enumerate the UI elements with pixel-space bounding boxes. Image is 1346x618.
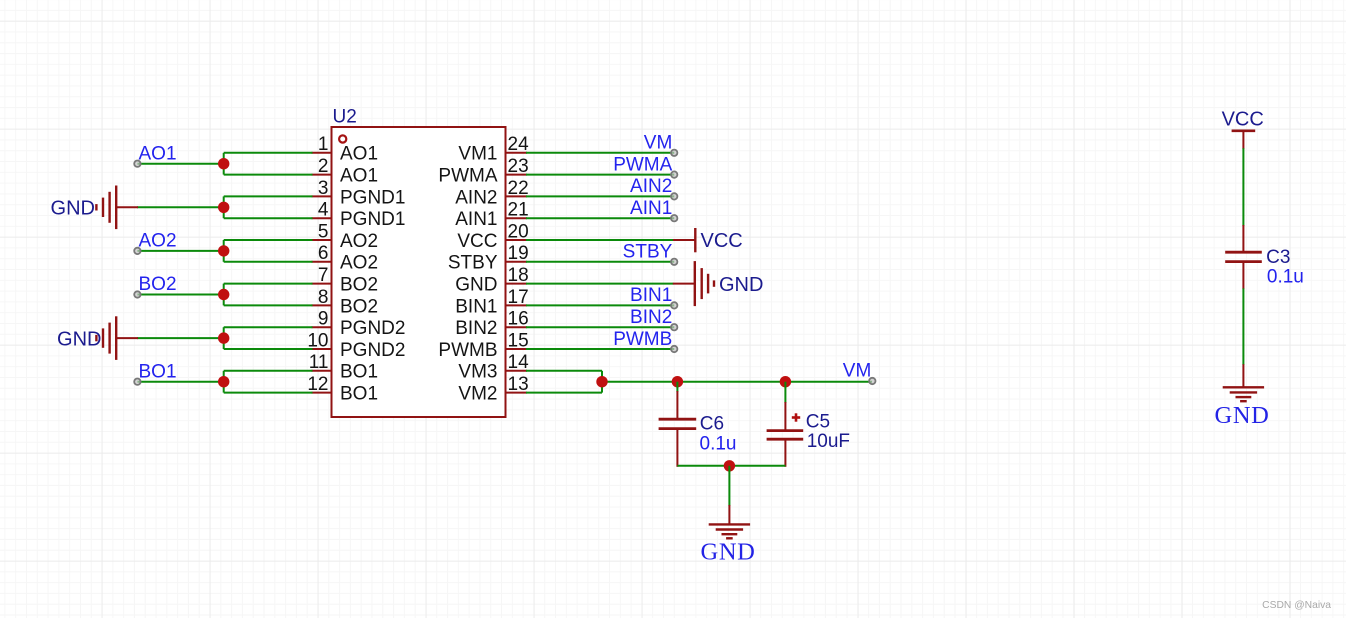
- svg-text:4: 4: [318, 200, 329, 221]
- svg-text:AIN1: AIN1: [630, 198, 672, 219]
- pin 21 (AIN1): [455, 200, 528, 231]
- wire C6/C5 bottom rail: [677, 465, 785, 467]
- node BO1: [139, 361, 177, 382]
- svg-text:BO1: BO1: [340, 384, 378, 405]
- value 0.1u: [700, 433, 737, 454]
- pin 16 (BIN2): [455, 309, 528, 340]
- node VM: [644, 133, 673, 154]
- junction: [724, 460, 735, 471]
- designator C5: [806, 411, 830, 432]
- net label GND: [701, 538, 756, 565]
- wire net AO1 pins 1/2: [224, 153, 313, 175]
- pin 9 (PGND2): [312, 309, 406, 340]
- svg-text:VM: VM: [843, 361, 872, 382]
- svg-text:VCC: VCC: [701, 230, 743, 252]
- wire net BIN2: [526, 326, 674, 328]
- pin 7 (BO2): [312, 265, 379, 296]
- svg-text:23: 23: [508, 156, 529, 177]
- value 10uF: [807, 431, 850, 452]
- wire to ground: [116, 337, 224, 339]
- node AIN2: [630, 176, 672, 197]
- power VCC flag: [1222, 109, 1264, 149]
- svg-text:C5: C5: [806, 411, 830, 432]
- wire pin 13 VM2: [526, 382, 602, 393]
- node BO2: [139, 274, 177, 295]
- node terminal: [671, 171, 677, 177]
- designator U2: [333, 107, 357, 128]
- junction: [218, 376, 229, 387]
- ground: [695, 261, 714, 306]
- wire net AIN1: [526, 217, 674, 219]
- pin 4 (PGND1): [312, 200, 406, 231]
- svg-text:PWMA: PWMA: [613, 154, 672, 175]
- svg-text:AO2: AO2: [340, 253, 378, 274]
- svg-text:17: 17: [508, 287, 529, 308]
- junction: [672, 376, 683, 387]
- svg-text:VM3: VM3: [458, 362, 497, 383]
- node terminal: [671, 259, 677, 265]
- junction: [218, 289, 229, 300]
- pin 22 (AIN2): [455, 178, 528, 209]
- svg-text:0.1u: 0.1u: [700, 433, 737, 454]
- wire net VCC pin 20: [526, 239, 695, 241]
- svg-text:STBY: STBY: [448, 253, 498, 274]
- pin 24 (VM1): [458, 134, 529, 165]
- svg-text:VCC: VCC: [1222, 109, 1264, 131]
- ground: [96, 316, 116, 360]
- junction: [218, 245, 229, 256]
- net label GND: [51, 198, 95, 220]
- IC U2 body: [332, 127, 506, 417]
- svg-text:VM1: VM1: [458, 144, 497, 165]
- pin 2 (AO1): [312, 156, 379, 187]
- svg-text:3: 3: [318, 178, 329, 199]
- pin 13 (VM2): [458, 374, 528, 405]
- net label GND: [1215, 402, 1270, 429]
- junction: [596, 376, 607, 387]
- svg-text:6: 6: [318, 243, 329, 264]
- node AO1: [139, 143, 177, 164]
- wire net VM rail: [602, 381, 872, 383]
- pin 8 (BO2): [312, 287, 379, 318]
- svg-text:21: 21: [508, 200, 529, 221]
- svg-text:AO2: AO2: [139, 231, 177, 252]
- node PWMB: [613, 329, 672, 350]
- pin 18 (GND): [455, 265, 528, 296]
- wire net PWMB: [526, 348, 674, 350]
- svg-text:STBY: STBY: [623, 242, 673, 263]
- wire net STBY: [526, 261, 674, 263]
- pin 1 indicator dot: [339, 135, 346, 142]
- svg-text:VM2: VM2: [458, 384, 497, 405]
- wire to node BO1: [137, 381, 223, 383]
- svg-text:PGND2: PGND2: [340, 340, 405, 361]
- capacitor C5: [767, 431, 804, 440]
- capacitor C3: [1225, 252, 1262, 261]
- wire to node AO2: [137, 250, 223, 252]
- svg-text:PWMB: PWMB: [438, 340, 497, 361]
- svg-text:AIN1: AIN1: [455, 209, 497, 230]
- node terminal: [869, 378, 875, 384]
- wire net VM: [526, 152, 674, 154]
- pin 12 (BO1): [307, 374, 378, 405]
- svg-text:C6: C6: [700, 414, 724, 435]
- svg-text:C3: C3: [1266, 247, 1290, 268]
- pin 15 (PWMB): [438, 330, 528, 361]
- wire to ground: [116, 206, 224, 208]
- svg-text:19: 19: [508, 243, 529, 264]
- node terminal: [134, 379, 140, 385]
- node PWMA: [613, 154, 672, 175]
- svg-text:VCC: VCC: [457, 231, 497, 252]
- wire C6 bottom lead: [676, 429, 678, 467]
- ground: [1223, 387, 1264, 401]
- designator C3: [1266, 247, 1290, 268]
- wire to node AO1: [137, 163, 223, 165]
- wire net GND pins 9/10: [224, 327, 313, 349]
- svg-text:PGND1: PGND1: [340, 209, 405, 230]
- pin 17 (BIN1): [455, 287, 528, 318]
- wire C5 bottom lead: [784, 439, 786, 467]
- pin 19 (STBY): [448, 243, 529, 274]
- node terminal: [671, 150, 677, 156]
- svg-text:18: 18: [508, 265, 529, 286]
- designator C6: [700, 414, 724, 435]
- svg-text:AO1: AO1: [340, 144, 378, 165]
- svg-text:20: 20: [508, 221, 529, 242]
- svg-text:BIN2: BIN2: [455, 318, 497, 339]
- svg-text:GND: GND: [51, 198, 95, 220]
- wire net PWMA: [526, 174, 674, 176]
- node terminal: [671, 346, 677, 352]
- pin 14 (VM3): [458, 352, 529, 383]
- svg-text:BIN1: BIN1: [455, 296, 497, 317]
- wire net BIN1: [526, 304, 674, 306]
- pin 20 (VCC): [457, 221, 528, 252]
- node STBY: [623, 242, 673, 263]
- svg-text:AIN2: AIN2: [455, 187, 497, 208]
- wire net AIN2: [526, 195, 674, 197]
- svg-text:13: 13: [508, 374, 529, 395]
- junction: [780, 376, 791, 387]
- power VCC flag: [695, 228, 742, 252]
- pin 6 (AO2): [312, 243, 379, 274]
- svg-text:15: 15: [508, 330, 529, 351]
- node AIN1: [630, 198, 672, 219]
- wire to ground: [728, 466, 730, 525]
- pin 5 (AO2): [312, 221, 379, 252]
- pin 1 (AO1): [312, 134, 379, 165]
- wire net BO2 pins 7/8: [224, 284, 313, 306]
- pin 23 (PWMA): [438, 156, 528, 187]
- capacitor C5 polarity +: [792, 413, 800, 421]
- capacitor C6: [659, 419, 697, 428]
- wire C5 top lead: [784, 382, 786, 431]
- wire pin 14 VM3: [526, 371, 602, 382]
- svg-text:AO1: AO1: [340, 166, 378, 187]
- node terminal: [134, 291, 140, 297]
- svg-text:AO1: AO1: [139, 143, 177, 164]
- net label GND: [719, 274, 763, 296]
- pin 10 (PGND2): [307, 330, 405, 361]
- svg-text:PWMA: PWMA: [438, 166, 497, 187]
- wire net GND pins 3/4: [224, 196, 313, 218]
- net label GND: [57, 328, 101, 350]
- svg-text:9: 9: [318, 309, 329, 330]
- node terminal: [671, 193, 677, 199]
- svg-text:16: 16: [508, 309, 529, 330]
- svg-text:BIN2: BIN2: [630, 307, 672, 328]
- node terminal: [134, 248, 140, 254]
- junction: [218, 332, 229, 343]
- svg-text:CSDN @Naiva: CSDN @Naiva: [1262, 600, 1331, 611]
- node terminal: [671, 324, 677, 330]
- svg-text:0.1u: 0.1u: [1267, 266, 1304, 287]
- wire C6 top lead: [676, 382, 678, 419]
- node AO2: [139, 231, 177, 252]
- svg-text:BO1: BO1: [139, 361, 177, 382]
- svg-text:BIN1: BIN1: [630, 285, 672, 306]
- svg-text:22: 22: [508, 178, 529, 199]
- pin 3 (PGND1): [312, 178, 406, 209]
- svg-text:PGND1: PGND1: [340, 187, 405, 208]
- svg-text:GND: GND: [701, 538, 756, 565]
- svg-text:2: 2: [318, 156, 329, 177]
- junction: [218, 202, 229, 213]
- node terminal: [671, 215, 677, 221]
- svg-text:BO2: BO2: [340, 296, 378, 317]
- svg-text:8: 8: [318, 287, 329, 308]
- svg-text:AIN2: AIN2: [630, 176, 672, 197]
- svg-text:PWMB: PWMB: [613, 329, 672, 350]
- svg-text:5: 5: [318, 221, 329, 242]
- wire net AO2 pins 5/6: [224, 240, 313, 262]
- junction: [218, 158, 229, 169]
- svg-text:1: 1: [318, 134, 329, 155]
- svg-text:BO2: BO2: [340, 275, 378, 296]
- svg-text:GND: GND: [719, 274, 763, 296]
- svg-text:BO2: BO2: [139, 274, 177, 295]
- svg-text:24: 24: [508, 134, 530, 155]
- wire net GND pin 18: [526, 283, 695, 285]
- watermark: [1262, 600, 1331, 611]
- svg-text:VM: VM: [644, 133, 673, 154]
- svg-text:PGND2: PGND2: [340, 318, 405, 339]
- svg-text:BO1: BO1: [340, 362, 378, 383]
- node BIN1: [630, 285, 672, 306]
- node terminal: [134, 161, 140, 167]
- svg-text:GND: GND: [57, 328, 101, 350]
- wire to node BO2: [137, 294, 223, 296]
- value 0.1u: [1267, 266, 1304, 287]
- svg-text:GND: GND: [455, 275, 497, 296]
- node VM: [843, 361, 872, 382]
- ground: [96, 186, 116, 230]
- svg-text:AO2: AO2: [340, 231, 378, 252]
- svg-text:14: 14: [508, 352, 530, 373]
- wire VCC to C3: [1242, 148, 1244, 252]
- svg-text:10uF: 10uF: [807, 431, 850, 452]
- node BIN2: [630, 307, 672, 328]
- wire net BO1 pins 11/12: [224, 371, 313, 393]
- svg-text:GND: GND: [1215, 402, 1270, 429]
- wire C3 to ground: [1242, 262, 1244, 388]
- svg-text:7: 7: [318, 265, 329, 286]
- svg-text:U2: U2: [333, 107, 357, 128]
- ground: [709, 524, 750, 538]
- node terminal: [671, 302, 677, 308]
- pin 11 (BO1): [309, 352, 378, 383]
